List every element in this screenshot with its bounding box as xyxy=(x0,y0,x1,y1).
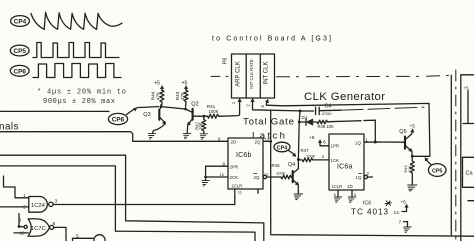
node junction Q2 emitter xyxy=(202,115,205,118)
gate IC24 xyxy=(23,193,57,212)
wire pin3 INT CLK to Q5 emitter (CLK box outline) xyxy=(267,103,430,156)
wire left signal to IC6b 2D xyxy=(0,132,228,142)
wire IC24 input 2 xyxy=(0,206,29,208)
footnote mark xyxy=(385,201,391,206)
pin 5 1D to ground xyxy=(351,190,353,197)
section divider chain line (horizontal) xyxy=(211,75,231,77)
svg-text:2: 2 xyxy=(245,104,250,107)
pin 3 (INT CLK) xyxy=(260,99,269,108)
svg-text:1CLR: 1CLR xyxy=(332,184,343,189)
svg-text:IC6b: IC6b xyxy=(236,152,252,159)
node junction D1 xyxy=(298,121,301,124)
test point CP5 (waveform label) xyxy=(10,45,29,56)
svg-text:ARP CLK: ARP CLK xyxy=(236,61,242,87)
svg-text:1C7C: 1C7C xyxy=(31,226,46,232)
resistor R47 100K xyxy=(298,148,315,162)
section chain line (vertical) xyxy=(450,75,452,235)
wire CP6 input from left edge xyxy=(0,110,109,112)
svg-text:Ca: Ca xyxy=(466,171,474,177)
svg-text:2Q: 2Q xyxy=(254,175,260,180)
svg-text:.47/50: .47/50 xyxy=(321,111,333,116)
svg-text:+5: +5 xyxy=(309,135,315,141)
svg-text:100K: 100K xyxy=(209,109,219,114)
svg-text:2D: 2D xyxy=(231,140,237,145)
svg-text:2Q: 2Q xyxy=(255,140,261,145)
resistor R45 100K xyxy=(272,163,292,179)
svg-text:C4: C4 xyxy=(325,103,332,109)
wire IC7c output to pin 5 xyxy=(54,227,66,241)
flip-flop IC6a xyxy=(329,134,364,190)
transistor Q5 xyxy=(399,124,415,161)
power +5 to 1PR pin 6 xyxy=(309,135,329,146)
node junction R43/Q2 base xyxy=(184,108,187,111)
svg-text:R47: R47 xyxy=(301,148,310,153)
svg-text:1Q: 1Q xyxy=(355,140,361,145)
svg-text:+5: +5 xyxy=(182,81,188,87)
adjacent section component box Ca xyxy=(463,157,474,187)
svg-text:Q4: Q4 xyxy=(288,162,295,168)
svg-text:R45: R45 xyxy=(272,163,281,168)
resistor R48 10K xyxy=(317,120,334,129)
wire R48 to 1Q node xyxy=(329,120,356,123)
svg-text:6: 6 xyxy=(323,140,326,146)
wire node down to D1 row xyxy=(298,111,301,122)
test point CP5 (circuit marker) xyxy=(425,158,446,177)
svg-text:nals: nals xyxy=(0,122,19,133)
node junction R44/Q3 xyxy=(160,105,163,108)
svg-text:INT CLK RATE: INT CLK RATE xyxy=(249,59,254,88)
svg-text:900µs ± 20% max: 900µs ± 20% max xyxy=(43,98,115,106)
ground (IC6b 2PR/2CK) xyxy=(200,181,209,186)
svg-text:CP6: CP6 xyxy=(112,117,125,124)
transistor Q2 xyxy=(186,102,204,133)
resistor R41 100K xyxy=(205,104,222,118)
adjacent section wire stub xyxy=(468,200,474,202)
ground (R42) xyxy=(198,134,207,139)
pin 11 2CLR stub xyxy=(234,189,236,205)
wire 2Q vertical to bottom section border xyxy=(271,110,474,236)
svg-text:100K: 100K xyxy=(306,154,316,159)
CP4 sawtooth waveform xyxy=(31,12,122,29)
transistor Q4 xyxy=(288,159,299,194)
pin stub IC6b bottom right xyxy=(257,189,259,193)
wire node down to Q4 collector xyxy=(297,122,300,159)
svg-text:+: + xyxy=(312,104,315,109)
pin 7 to ground xyxy=(399,220,412,233)
svg-text:47K: 47K xyxy=(156,91,161,100)
svg-text:INT CLK: INT CLK xyxy=(264,62,270,85)
pin 1 (ARP CLK) xyxy=(231,98,241,104)
label Total Gate Latch xyxy=(243,117,294,142)
wire C4 right (dashed fade) xyxy=(319,109,341,112)
test point CP6 (waveform label) xyxy=(10,65,29,76)
power +5 to pin 14 xyxy=(394,200,409,216)
resistor R42 10K xyxy=(194,116,206,133)
diode D1 xyxy=(299,115,317,125)
wire R41 to P8 pin 1 xyxy=(222,105,240,117)
svg-text:+5: +5 xyxy=(401,200,407,206)
wire pin2 to C4 node xyxy=(253,105,301,111)
ground (Q2 emitter) xyxy=(182,133,191,138)
svg-text:100K: 100K xyxy=(276,170,286,175)
timing note text xyxy=(37,89,126,106)
gate IC7c xyxy=(28,219,56,236)
svg-text:Q2: Q2 xyxy=(191,102,198,108)
svg-text:Q5: Q5 xyxy=(399,129,406,135)
svg-text:CP6: CP6 xyxy=(13,68,26,75)
svg-text:+5: +5 xyxy=(464,86,470,91)
capacitor C4 .47/50 xyxy=(300,103,332,115)
svg-text:10K: 10K xyxy=(407,165,412,172)
wire R47 to IC6a 1CK pin 4 xyxy=(315,159,329,161)
svg-text:CLK Generator: CLK Generator xyxy=(304,91,385,103)
wire CP6 arrow to Q3 base node xyxy=(137,107,159,108)
svg-text:IC6a: IC6a xyxy=(337,164,353,171)
svg-text:3: 3 xyxy=(55,199,58,205)
test point CP4 (circuit marker) xyxy=(274,142,296,156)
pin 3 1CLR to ground xyxy=(337,190,339,197)
wire 2PR/2CK to ground xyxy=(205,166,207,180)
wire Q3 collector to Q2 stage xyxy=(161,107,186,109)
svg-text:to Control Board A [G3]: to Control Board A [G3] xyxy=(212,36,331,43)
ground (R46) xyxy=(411,178,413,185)
svg-text:Q3: Q3 xyxy=(143,112,150,118)
pin 2 (INT CLK RATE) xyxy=(245,98,254,106)
svg-text:14.: 14. xyxy=(394,210,401,216)
wire IC24 input 1 xyxy=(4,176,29,198)
svg-text:10K: 10K xyxy=(198,122,203,130)
ground (Q3 emitter) xyxy=(147,134,156,139)
resistor R44 47K xyxy=(151,90,165,105)
power +5 (R44) xyxy=(154,81,164,91)
svg-text:1PR: 1PR xyxy=(331,144,340,149)
svg-text:1Q: 1Q xyxy=(356,175,362,180)
svg-text:D1: D1 xyxy=(302,115,308,120)
svg-text:Total Gate: Total Gate xyxy=(243,117,294,128)
svg-text:IC6: IC6 xyxy=(363,201,371,207)
svg-text:CP5: CP5 xyxy=(13,48,26,55)
svg-text:3: 3 xyxy=(260,105,265,108)
svg-text:1: 1 xyxy=(231,101,236,104)
svg-text:* 4µs ± 20% min to: * 4µs ± 20% min to xyxy=(37,89,126,97)
flip-flop IC6b xyxy=(228,138,263,189)
adjacent section border xyxy=(461,75,474,241)
node junction pin2/C4/D1 xyxy=(299,110,302,113)
svg-text:2CLR: 2CLR xyxy=(232,184,243,189)
resistor R46 10K xyxy=(403,161,414,178)
svg-text:TC 4013: TC 4013 xyxy=(351,208,388,217)
gate bubble (partial, bottom edge) xyxy=(94,235,105,241)
svg-text:1C24: 1C24 xyxy=(31,203,46,209)
svg-text:R48 10K: R48 10K xyxy=(318,124,335,129)
svg-text:+5: +5 xyxy=(410,124,416,130)
transistor Q3 xyxy=(143,107,165,134)
svg-text:47K: 47K xyxy=(180,91,185,100)
node junction Q4 collector / R47 xyxy=(297,158,300,161)
svg-text:CP5: CP5 xyxy=(432,168,443,174)
svg-text:2CK: 2CK xyxy=(230,175,239,180)
node junction Q5 emitter xyxy=(411,155,414,158)
svg-text:1D: 1D xyxy=(347,184,353,189)
wire IC24 output to IC6b 2CLR xyxy=(53,204,235,206)
CP6 pulse waveform xyxy=(33,64,121,78)
resistor R43 47K xyxy=(175,90,188,107)
svg-text:CP4: CP4 xyxy=(14,19,27,26)
wire bus W1 xyxy=(0,155,264,241)
connector P8 xyxy=(223,54,275,98)
svg-text:10: 10 xyxy=(220,172,225,177)
power +5 (R43) xyxy=(182,81,188,91)
wire bus W2 xyxy=(0,166,255,241)
svg-text:CP4: CP4 xyxy=(277,145,288,151)
svg-text:7.: 7. xyxy=(399,220,403,226)
svg-text:+5: +5 xyxy=(154,81,160,87)
test point CP6 (circuit marker) xyxy=(108,108,136,125)
ground (Q4 emitter) xyxy=(292,194,302,200)
svg-text:2PR: 2PR xyxy=(230,164,239,169)
svg-text:P8: P8 xyxy=(223,58,229,64)
svg-text:8: 8 xyxy=(53,221,56,227)
svg-text:1CK: 1CK xyxy=(331,158,340,163)
CP5 pulse waveform xyxy=(33,43,119,58)
test point CP4 (waveform label) xyxy=(11,16,30,27)
